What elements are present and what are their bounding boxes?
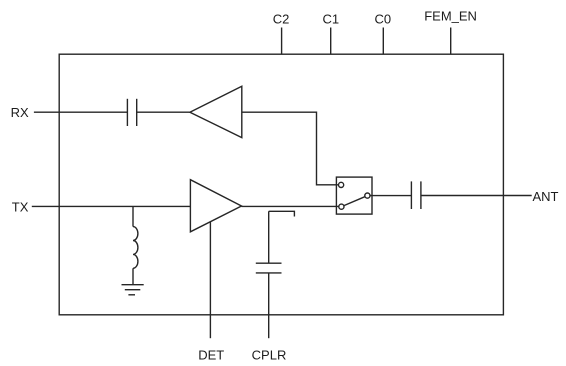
- capacitor RX dc-block: [127, 99, 136, 126]
- wire ANT lead: [421, 195, 532, 197]
- wire switch to capacitor: [370, 195, 411, 197]
- svg-text:CPLR: CPLR: [252, 348, 287, 363]
- wire LNA input from switch: [242, 112, 339, 185]
- wire coupler to capacitor: [268, 211, 270, 263]
- capacitor ANT dc-block: [411, 181, 421, 209]
- svg-text:C0: C0: [374, 11, 391, 26]
- wire TX lead: [32, 205, 191, 207]
- svg-text:DET: DET: [198, 348, 224, 363]
- svg-text:TX: TX: [12, 199, 29, 214]
- coupler coupled line: [269, 211, 295, 216]
- svg-text:C1: C1: [322, 11, 339, 26]
- amplifier LNA (RX): [190, 86, 242, 137]
- switch arm: [344, 197, 365, 206]
- switch contact TX throw: [339, 204, 344, 209]
- wire C1: [330, 28, 332, 55]
- amplifier PA (TX): [190, 180, 241, 232]
- svg-text:ANT: ANT: [533, 189, 559, 204]
- ground: [122, 285, 144, 295]
- inductor shunt (TX match): [133, 206, 138, 284]
- switch contact ANT pole: [365, 193, 370, 198]
- wire RX lead: [34, 111, 128, 113]
- switch SPDT body: [336, 177, 372, 214]
- svg-text:FEM_EN: FEM_EN: [424, 9, 477, 24]
- wire PA output to switch: [242, 205, 339, 207]
- wire C2: [281, 28, 283, 55]
- svg-text:C2: C2: [273, 11, 290, 26]
- wire C0: [382, 28, 384, 55]
- svg-text:RX: RX: [11, 105, 29, 120]
- switch contact RX throw: [339, 182, 344, 187]
- wire DET sense from PA: [209, 222, 211, 339]
- wire capacitor to LNA output: [137, 111, 190, 113]
- capacitor CPLR coupling: [256, 263, 282, 273]
- module outline: [59, 54, 503, 315]
- wire CPLR lead: [268, 273, 270, 338]
- wire FEM_EN: [450, 28, 452, 55]
